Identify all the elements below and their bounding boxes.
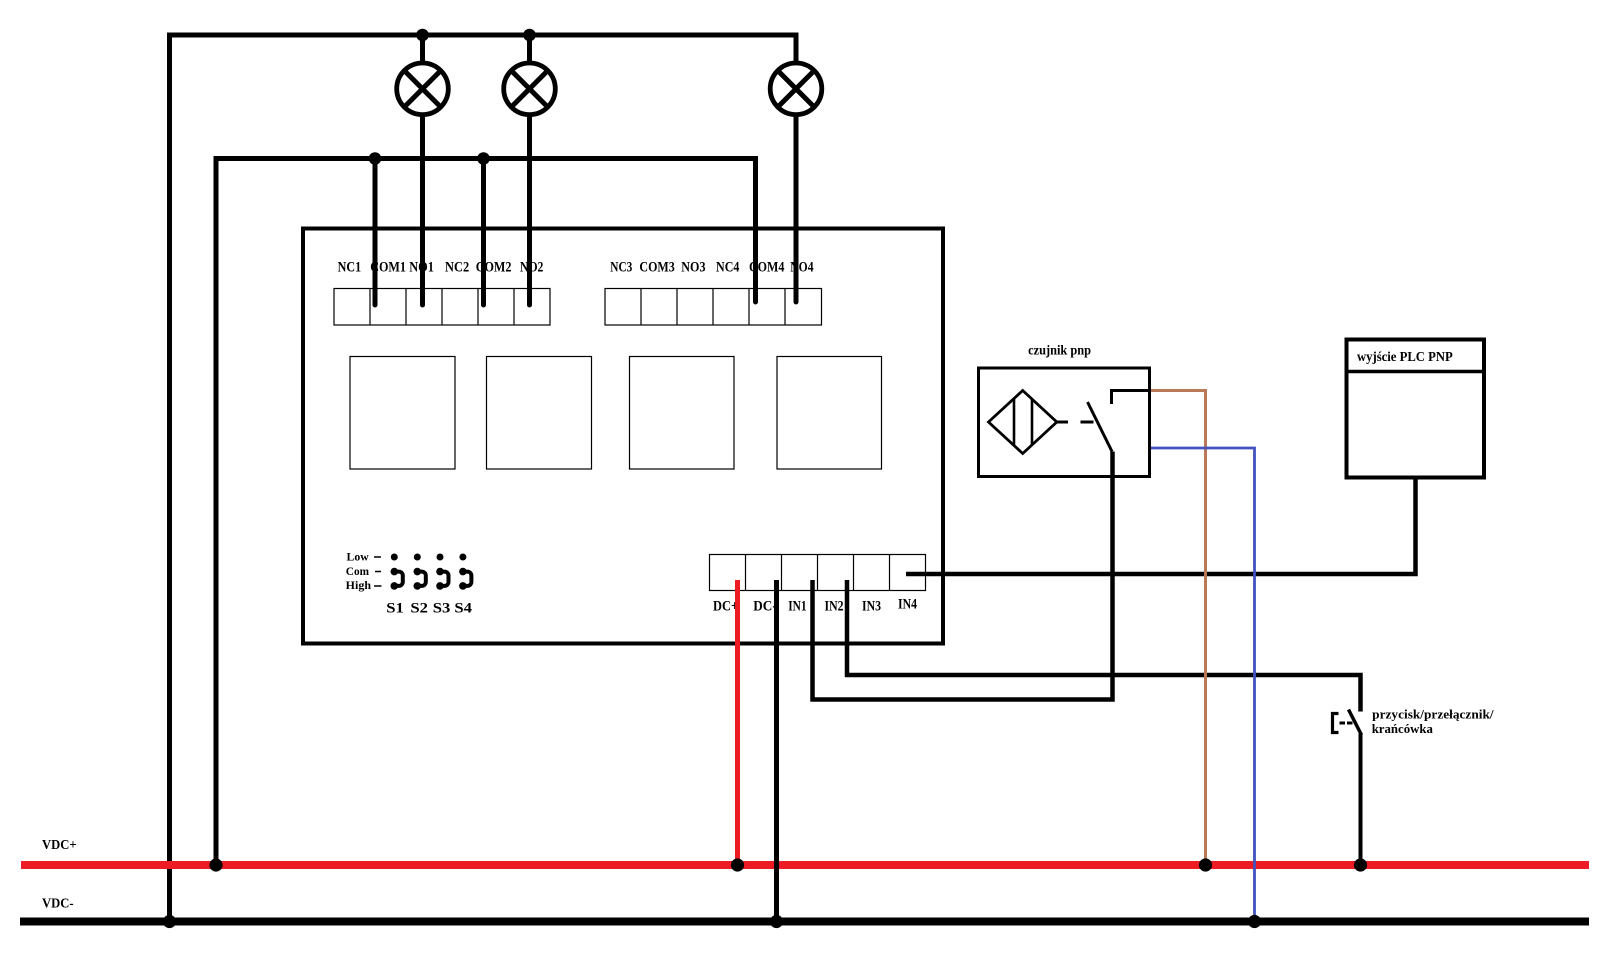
sensor switch blade <box>1088 402 1113 452</box>
terminal block NC1..NO2 <box>334 289 550 326</box>
wire COM bus with left drop to VDC+ and right drop to COM4 <box>216 159 756 866</box>
wire DC+ red drop to VDC+ <box>735 580 740 865</box>
DIP switch S1 <box>391 554 403 590</box>
wire IN2 to przycisk switch <box>847 580 1361 712</box>
junction dot przycisk VDC+ <box>1354 858 1367 871</box>
svg-text:S1: S1 <box>386 600 404 616</box>
DIP switch S2 <box>414 554 426 590</box>
svg-text:IN2: IN2 <box>825 599 844 615</box>
svg-text:VDC-: VDC- <box>42 897 74 912</box>
przycisk actuator bracket <box>1333 714 1339 733</box>
sensor contact dash <box>1081 421 1094 424</box>
svg-text:NC2: NC2 <box>445 260 469 276</box>
junction dot blue VDC- <box>1248 915 1261 928</box>
wire COM1 drop <box>373 159 378 306</box>
svg-text:NC3: NC3 <box>610 260 632 276</box>
svg-text:IN1: IN1 <box>788 599 806 615</box>
VDC+ rail <box>21 861 1589 869</box>
svg-text:High: High <box>346 580 372 592</box>
svg-text:S3: S3 <box>433 600 451 616</box>
svg-text:IN4: IN4 <box>898 597 917 613</box>
wire lamp2 top stem <box>527 35 532 62</box>
sensor output lead <box>1057 421 1068 424</box>
relay K4 <box>777 357 882 470</box>
svg-text:Low: Low <box>347 552 370 564</box>
lamp LP2 <box>504 63 556 115</box>
junction dot lamp2 top <box>523 29 536 42</box>
wire blue sensor - to VDC- <box>1151 448 1255 922</box>
relay K2 <box>487 357 592 470</box>
wire lamp1 top stem <box>420 35 425 62</box>
relay K1 <box>350 357 455 470</box>
DIP switch S4 <box>459 554 471 590</box>
terminal block DC+..IN4 <box>710 555 926 591</box>
junction dot COM bus VDC+ <box>209 858 222 871</box>
przycisk actuator dashes <box>1340 722 1354 725</box>
wire IN1 to sensor output <box>813 452 1113 700</box>
relay K3 <box>630 357 735 470</box>
wire COM2 drop <box>481 159 486 306</box>
wire brown sensor + to VDC+ <box>1151 391 1206 866</box>
svg-text:przycisk/przełącznik/: przycisk/przełącznik/ <box>1372 706 1494 721</box>
svg-text:VDC+: VDC+ <box>42 838 77 853</box>
junction dot brown VDC+ <box>1199 858 1212 871</box>
wire top lamp bus with left drop to VDC- <box>170 35 797 922</box>
junction dot lamp bus VDC- <box>163 915 176 928</box>
wire lamp3 bottom stem to NO4 <box>794 116 799 302</box>
svg-text:S2: S2 <box>410 600 428 616</box>
PLC box header divider <box>1345 370 1487 374</box>
wire lamp1 bottom stem to NO1 <box>420 116 425 305</box>
przycisk switch lower wire to VDC+ <box>1359 734 1363 866</box>
svg-text:COM3: COM3 <box>639 260 674 276</box>
sensor diamond inner line 1 <box>1013 399 1016 446</box>
sensor brown terminal lead <box>1112 391 1152 405</box>
wyjscie PLC PNP box <box>1347 340 1485 478</box>
svg-text:NO3: NO3 <box>681 260 705 276</box>
DIP switch S3 <box>436 554 448 590</box>
svg-text:Com: Com <box>346 566 370 578</box>
wire IN4 to PLC output <box>906 479 1416 574</box>
svg-text:NC1: NC1 <box>338 260 362 276</box>
junction dot COM1 bus <box>369 152 382 165</box>
svg-text:czujnik pnp: czujnik pnp <box>1028 343 1091 358</box>
junction dot DC+ VDC+ <box>731 858 744 871</box>
svg-text:wyjście PLC PNP: wyjście PLC PNP <box>1357 350 1453 365</box>
wire DC- drop to VDC- <box>774 580 779 922</box>
svg-text:S4: S4 <box>454 600 472 616</box>
svg-text:DC-: DC- <box>753 599 777 615</box>
sensor box U1 <box>979 368 1150 477</box>
lamp LP1 <box>397 63 449 115</box>
svg-text:krańcówka: krańcówka <box>1372 721 1434 736</box>
junction dot DC- VDC- <box>770 915 783 928</box>
VDC- rail <box>20 918 1589 926</box>
svg-text:NC4: NC4 <box>716 260 739 276</box>
sensor diamond inner line 2 <box>1031 400 1034 445</box>
terminal block NC3..NO4 <box>605 289 822 326</box>
lamp LP3 <box>770 63 822 115</box>
svg-text:IN3: IN3 <box>862 599 881 615</box>
sensor diamond <box>989 391 1057 454</box>
wire lamp2 bottom stem to NO2 <box>527 116 532 305</box>
junction dot lamp1 top <box>416 29 429 42</box>
svg-text:DC+: DC+ <box>713 599 738 615</box>
relay module box <box>303 229 943 644</box>
wire VDC+ rail overpass at lamp-bus drop <box>163 861 177 869</box>
przycisk switch blade <box>1349 710 1362 736</box>
junction dot COM2 bus <box>477 152 490 165</box>
